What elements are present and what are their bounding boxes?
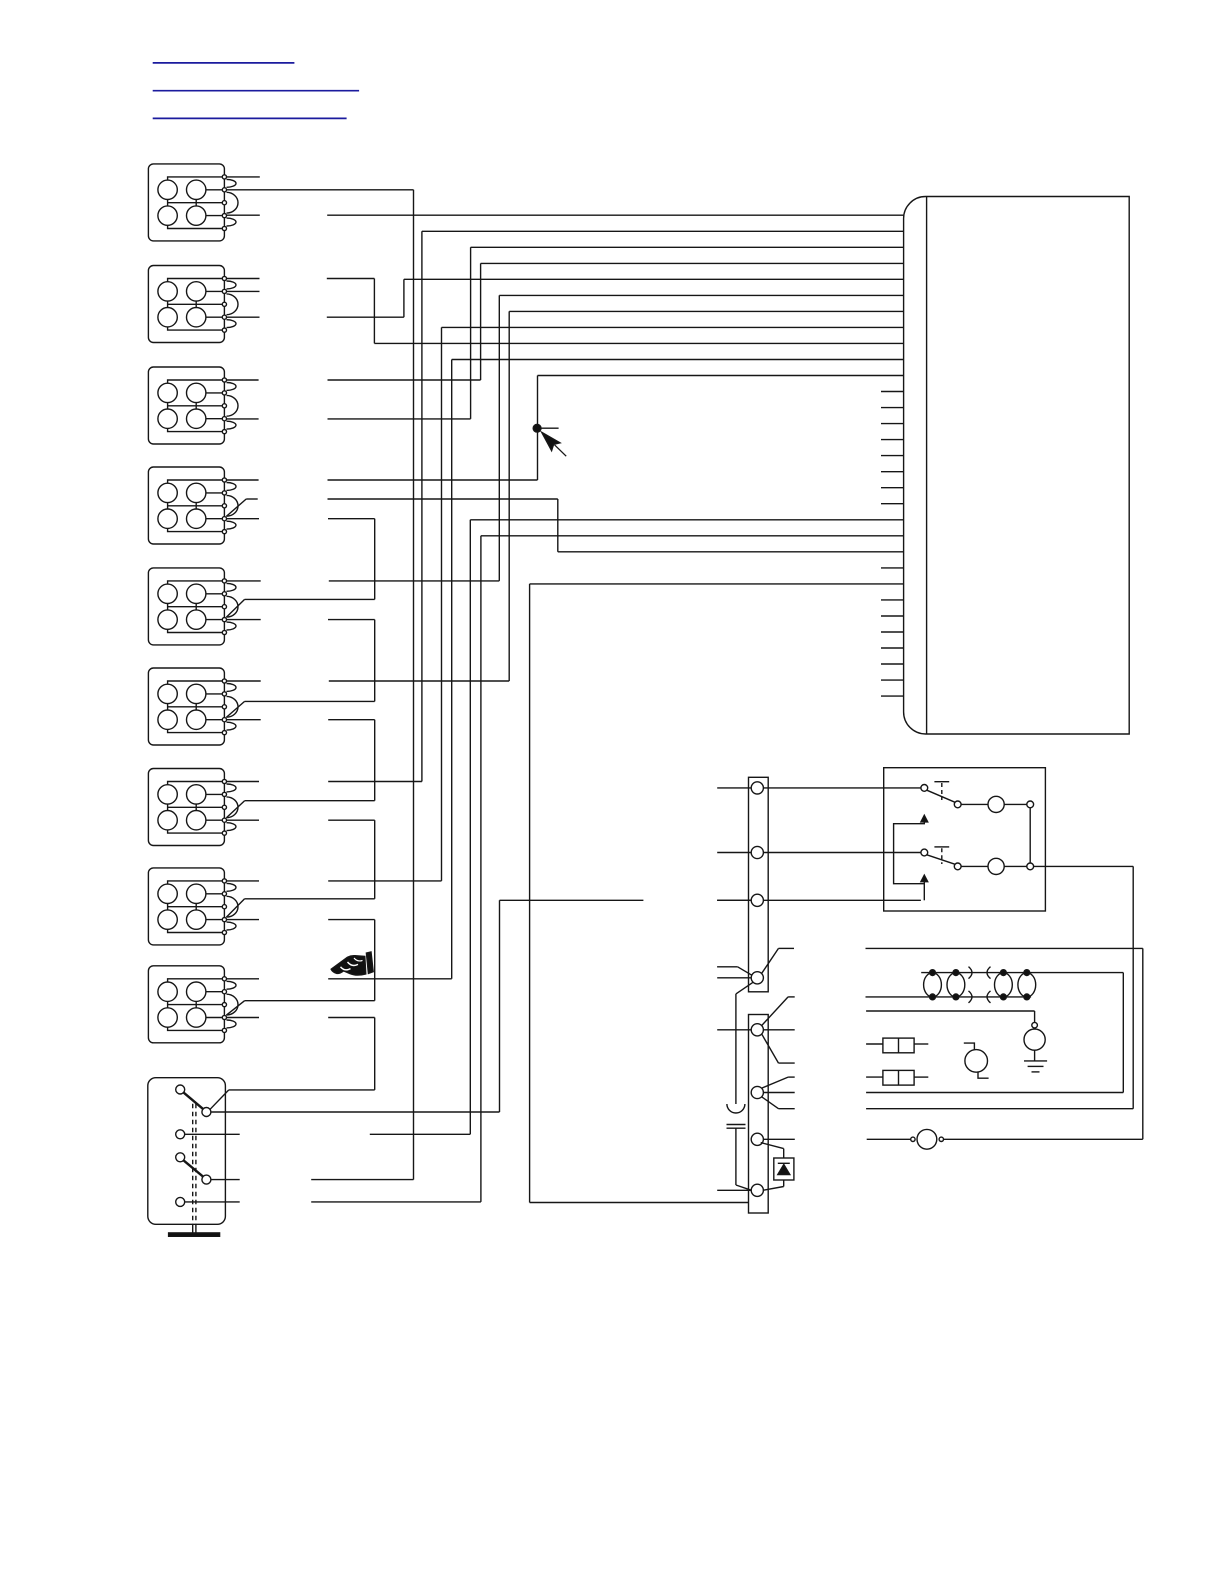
speaker connector SP1 xyxy=(148,164,224,241)
hyperlink underlines xyxy=(153,63,359,119)
arrow A1 (to K1) xyxy=(921,815,928,822)
wire SP1 pin1 stub xyxy=(224,176,259,178)
main unit pin 13 stub xyxy=(881,407,904,409)
main unit pin 26 stub xyxy=(881,615,904,617)
wire riser pin2 to SP7 pin1 xyxy=(421,231,423,781)
wire switch S2-c stub xyxy=(185,1201,240,1203)
speaker connector SP9 xyxy=(148,966,224,1043)
wire riser from SP1 pin2 down to switch S2-b xyxy=(413,190,415,1180)
wire C up to arrow A2 xyxy=(923,882,925,901)
wire SP8 pin1 lead xyxy=(328,880,441,882)
wire chain link at SP6 level xyxy=(245,700,375,702)
wire strip A to relay switch xyxy=(763,787,921,789)
link underline 2 xyxy=(153,90,359,92)
wire chain SP4 pin4 down xyxy=(374,519,376,600)
wire bypass lower xyxy=(735,1128,737,1185)
relay switch K1 throw xyxy=(954,801,961,808)
switch block SW1 outline xyxy=(148,1078,226,1225)
wire to main unit pin 8 xyxy=(442,326,904,328)
connector CN pin B xyxy=(751,846,763,858)
wire SP4 pin1 stub xyxy=(224,479,258,481)
main unit U1 (rounded-left box) xyxy=(904,197,1130,735)
wire pin E down-diagonal xyxy=(762,1034,779,1063)
wire riser pin24 down to connector CN3 xyxy=(529,584,531,1203)
relay K2 output node xyxy=(1027,863,1034,870)
main unit pin 15 stub xyxy=(881,439,904,441)
wire strip C resume xyxy=(717,899,751,901)
wire switch S2-b lead xyxy=(311,1179,413,1181)
wire pin F up-diagonal xyxy=(762,1077,788,1088)
main unit pin 16 stub xyxy=(881,455,904,457)
speaker connector SP8 xyxy=(148,868,224,945)
connector slack loop xyxy=(727,1104,745,1113)
wire twisted-pair bottom rail xyxy=(866,996,1032,998)
wire joining relay outputs xyxy=(1029,808,1031,863)
speaker connector SP3 xyxy=(148,367,224,444)
lamp L3 body xyxy=(965,1050,988,1073)
switch mechanical link (dashed) xyxy=(193,1104,196,1225)
wire switch S1-b stub xyxy=(185,1133,240,1135)
connector CN2 outline xyxy=(749,777,769,992)
wire fuse holder out xyxy=(944,1138,1143,1140)
wire left stub pin C xyxy=(717,899,751,901)
wire lamp L2 out xyxy=(1004,865,1027,867)
wire G to diode xyxy=(761,1143,784,1149)
wire SP1 pin4 stub xyxy=(224,214,259,216)
fuse F1 xyxy=(883,1038,914,1053)
main unit pin 17 stub xyxy=(881,471,904,473)
wire riser pin3 to SP3 pin4 xyxy=(470,247,472,419)
wire switch S2-c lead xyxy=(311,1201,481,1203)
wire SP4 pin4 lead xyxy=(328,518,375,520)
fuse holder body xyxy=(917,1129,937,1149)
switch S2-b throw contact xyxy=(202,1175,211,1184)
wire strip F right stub xyxy=(763,1092,794,1094)
switch S2-c contact xyxy=(176,1197,185,1206)
wire fuse F2 lead-in xyxy=(866,1076,883,1078)
wire to main unit pin 3 xyxy=(471,246,904,248)
main unit pin 23 stub xyxy=(881,567,904,569)
diode D1 box xyxy=(774,1158,794,1180)
main unit pin 18 stub xyxy=(881,487,904,489)
twisted pair junction dots 2 xyxy=(953,970,959,976)
connector CN pin C xyxy=(751,894,763,906)
wire chain SP7 pin4 down xyxy=(374,820,376,899)
main unit pin 27 stub xyxy=(881,631,904,633)
wire bypass D to H upper xyxy=(736,982,753,994)
wire relay output right xyxy=(1034,865,1134,867)
connector CN pin D xyxy=(751,972,763,984)
twisted pair junction dots 1 xyxy=(930,970,936,976)
linkage T2 bar xyxy=(934,846,949,848)
wire node stub xyxy=(541,427,559,429)
wire strip C segment xyxy=(500,899,644,901)
speaker connector SP6 xyxy=(148,668,224,745)
wire chain diagonal into S1-a xyxy=(210,1090,229,1109)
wire to main unit pin 2 xyxy=(422,230,904,232)
antenna ground stem xyxy=(1034,1050,1036,1061)
wire chain link at SP9 level xyxy=(245,1000,375,1002)
wire jog to pin5 xyxy=(403,279,405,317)
fuse holder terminal 2 xyxy=(939,1137,943,1141)
wire to main unit pin 24 xyxy=(530,583,904,585)
speaker connector SP2 xyxy=(148,266,224,343)
wire pin24 to connector CN3 bottom xyxy=(530,1202,749,1204)
twisted pair loop 2 xyxy=(947,973,965,997)
relay switch K2 pole xyxy=(921,849,928,856)
wire left stub pin E xyxy=(717,1029,751,1031)
wire F resumed to riser xyxy=(866,1092,1123,1094)
wire left stub pin B xyxy=(717,852,751,854)
connector CN pin G xyxy=(751,1133,763,1145)
relay K1 output node xyxy=(1027,801,1034,808)
linkage T2 stem (dashed) xyxy=(941,848,943,864)
wire riser D down xyxy=(1142,948,1144,1139)
lamp L2 xyxy=(988,858,1004,874)
wire riser pin21 to switch S2-c xyxy=(480,536,482,1202)
wire strip C to relay arrows xyxy=(763,899,921,901)
wire to main unit pin 11 xyxy=(538,375,904,377)
wire K2 to lamp xyxy=(961,865,988,867)
wire SP9 pin4 stub xyxy=(224,1017,259,1019)
wire pin E up-diagonal xyxy=(762,997,788,1026)
wire twisted-pair top rail xyxy=(921,972,1123,974)
speaker connector SP5 xyxy=(148,568,224,645)
antenna motor body xyxy=(1024,1029,1045,1050)
wire riser pin6 to SP5 pin1 xyxy=(498,295,500,581)
twisted pair junction dots 3 xyxy=(1001,970,1007,976)
switch S1-a pole contact xyxy=(176,1085,185,1094)
twisted pair junction dots 4 xyxy=(1024,970,1030,976)
wire to main unit pin 4 xyxy=(481,262,904,264)
wire SP9 pin4 lead xyxy=(328,1017,375,1019)
wire SP5 pin1 stub xyxy=(224,580,260,582)
main unit pin 29 stub xyxy=(881,663,904,665)
wire to main unit pin 20 xyxy=(470,519,903,521)
lamp L1 xyxy=(988,796,1004,812)
switch S1-b contact xyxy=(176,1130,185,1139)
wire K1 to lamp xyxy=(961,803,988,805)
wire SP7 pin4 stub xyxy=(224,819,259,821)
linkage T1 bar xyxy=(934,781,949,783)
wire SP8 pin4 stub xyxy=(224,919,259,921)
wire chain link at SP7 level xyxy=(245,800,375,802)
main unit pin 19 stub xyxy=(881,503,904,505)
wire diode to H xyxy=(783,1180,785,1187)
main unit pin 28 stub xyxy=(881,647,904,649)
wire to main unit pin 22 xyxy=(558,551,904,553)
wire pin F down-diagonal xyxy=(762,1097,779,1109)
wire switch S1-b lead xyxy=(370,1133,471,1135)
wire left stub pin H xyxy=(717,1189,751,1191)
wire chain link to switch xyxy=(229,1089,375,1091)
wire to main unit pin 10 xyxy=(452,359,904,361)
wire riser relay output xyxy=(1132,866,1134,1108)
wire chain link at SP8 level xyxy=(245,898,375,900)
wire SP4 pin4 stub xyxy=(224,518,259,520)
wire SP1 pin2 lead xyxy=(224,189,413,191)
wire SP6 pin1 stub xyxy=(224,680,260,682)
lamp L3 leads xyxy=(964,1043,975,1050)
wire lamp L1 out xyxy=(1004,803,1027,805)
wire SP7 pin1 lead xyxy=(328,781,422,783)
twisted pair loop 1 xyxy=(924,973,942,997)
wire to main unit pin 21 xyxy=(481,535,904,537)
wire riser pin10 to SP9 pin1 xyxy=(451,360,453,979)
ground chassis bar xyxy=(169,1233,220,1236)
wire strip G right stub xyxy=(763,1138,794,1140)
wire fuse F1 lead-out xyxy=(914,1043,928,1045)
wire SP2 pin2 stub xyxy=(224,290,259,292)
cable break marks xyxy=(969,967,973,979)
wire fuse F2 lead-out xyxy=(914,1076,928,1078)
link underline 3 xyxy=(153,117,347,119)
connector CN pin E xyxy=(751,1024,763,1036)
arrow A2 (to K2) xyxy=(921,875,928,882)
switch S1-a throw contact xyxy=(202,1108,211,1117)
wire riser pin7 to SP6 pin1 xyxy=(508,311,510,681)
wire SP7 pin1 stub xyxy=(224,781,259,783)
wire SP2 pin1 stub xyxy=(224,278,259,280)
wire F-down resumed xyxy=(866,1108,1133,1110)
wire switch S2-b stub xyxy=(211,1179,240,1181)
wire to main unit pin 6 xyxy=(499,294,903,296)
wire SP3 pin4 lead xyxy=(328,418,471,420)
wire riser pin20 to switch S1-b xyxy=(469,520,471,1135)
connector CN3 outline xyxy=(749,1015,769,1214)
wire chain SP5 pin4 down xyxy=(374,620,376,702)
linkage T1 stem (dashed) xyxy=(941,783,943,800)
main unit pin 25 stub xyxy=(881,599,904,601)
wire SP8 pin1 stub xyxy=(224,880,259,882)
wire SP4 diagonal lead to pin22 xyxy=(328,498,558,500)
wire SP6 pin1 lead xyxy=(329,680,509,682)
switch S2-a pole contact xyxy=(176,1153,185,1162)
wire SP5 pin1 lead xyxy=(329,580,500,582)
wire strip B to relay switch xyxy=(763,852,921,854)
speaker connector SP7 xyxy=(148,769,224,846)
wire arrow feed bracket xyxy=(894,822,925,884)
connector CN pin F xyxy=(751,1086,763,1098)
main unit pin 14 stub xyxy=(881,423,904,425)
main unit pin 12 stub xyxy=(881,391,904,393)
wire riser strip C2 up to connector CN2 pin3 xyxy=(499,900,501,1112)
wire SP2 pin1 lead xyxy=(327,278,375,280)
wire SP4 diagonal stub xyxy=(246,498,258,500)
wire SP8 pin4 lead xyxy=(328,919,375,921)
earth ground symbol xyxy=(1024,1060,1047,1062)
wire riser pin4 to SP3 pin1 xyxy=(480,263,482,380)
wire SP5 pin4 stub xyxy=(224,619,260,621)
connector CN pin H xyxy=(751,1184,763,1196)
relay switch K1 pole xyxy=(921,785,928,792)
switch block ground stem xyxy=(192,1224,194,1233)
connector CN pin A xyxy=(751,782,763,794)
fuse F2 xyxy=(883,1070,914,1085)
wire D resumed to fuse column xyxy=(866,947,1143,949)
node junction dot xyxy=(533,424,541,432)
wire to main unit pin 9 xyxy=(374,342,903,344)
wire antenna feed xyxy=(866,1010,1035,1012)
antenna trimmer contact xyxy=(1032,1022,1038,1028)
cursor arrow xyxy=(542,432,566,456)
wire to main unit pin 7 xyxy=(509,310,903,312)
relay switch K1 lever xyxy=(927,790,955,802)
wire fuse F1 lead-in xyxy=(866,1043,883,1045)
wire chain SP6 pin4 down xyxy=(374,720,376,801)
diode D1 symbol xyxy=(778,1165,790,1175)
twisted pair loop 3 xyxy=(995,973,1013,997)
wire pin D diagonal-left stub xyxy=(717,966,738,968)
relay box outline xyxy=(884,768,1046,911)
wire SP9 pin1 lead xyxy=(328,978,452,980)
main unit pin 30 stub xyxy=(881,679,904,681)
switch S2-a lever xyxy=(184,1160,204,1176)
wire SP3 pin1 stub xyxy=(224,379,258,381)
wire SP6 pin4 lead xyxy=(328,719,375,721)
link underline 1 xyxy=(153,62,295,64)
wire riser pin11 to SP4 pin1 xyxy=(537,376,539,481)
fuse holder terminal 1 xyxy=(911,1137,915,1141)
wire riser twisted-rail xyxy=(1122,973,1124,1093)
main unit pin 31 stub xyxy=(881,695,904,697)
wire SP2 pin4 lead xyxy=(327,316,404,318)
switch S1-a lever xyxy=(184,1093,204,1110)
wire to main unit pin 5 xyxy=(404,278,904,280)
wire chain link at SP5 level xyxy=(245,598,375,600)
twisted pair loop 4 xyxy=(1018,973,1036,997)
relay switch K2 throw xyxy=(954,863,961,870)
wire SP9 pin1 stub xyxy=(224,978,259,980)
relay switch K2 lever xyxy=(927,855,955,864)
wire SP3 pin4 stub xyxy=(224,418,258,420)
wire chain SP9 pin4 down to switch S1-a xyxy=(374,1018,376,1090)
wire riser pin8 to SP8 pin1 xyxy=(441,327,443,881)
wire SP5 pin4 lead xyxy=(328,619,375,621)
pointing hand icon xyxy=(331,952,373,975)
wire SP2 pin4 stub xyxy=(224,316,259,318)
wire riser pin22 jog xyxy=(557,499,559,552)
wire riser SP2 pin1 to pin9 xyxy=(373,279,375,344)
wire left stub pin A xyxy=(717,787,751,789)
wire SP4 pin1 lead xyxy=(328,479,538,481)
wire pin D diagonal-right xyxy=(762,948,779,973)
wire left stub pin D xyxy=(717,977,751,979)
wire SP7 pin4 lead xyxy=(328,819,375,821)
connector mate bars xyxy=(727,1124,746,1126)
wire switch S1-a contact line xyxy=(212,1111,500,1113)
wire SP6 pin4 stub xyxy=(224,719,260,721)
wire chain SP8 pin4 down xyxy=(374,920,376,1001)
main unit connector divider xyxy=(926,197,928,735)
speaker connector SP4 xyxy=(148,467,224,544)
wire SP3 pin1 lead xyxy=(328,379,481,381)
wire to main unit pin 1 xyxy=(327,214,903,216)
wire strip E right stub xyxy=(763,1029,794,1031)
wire G resumed to fuse holder xyxy=(867,1138,911,1140)
